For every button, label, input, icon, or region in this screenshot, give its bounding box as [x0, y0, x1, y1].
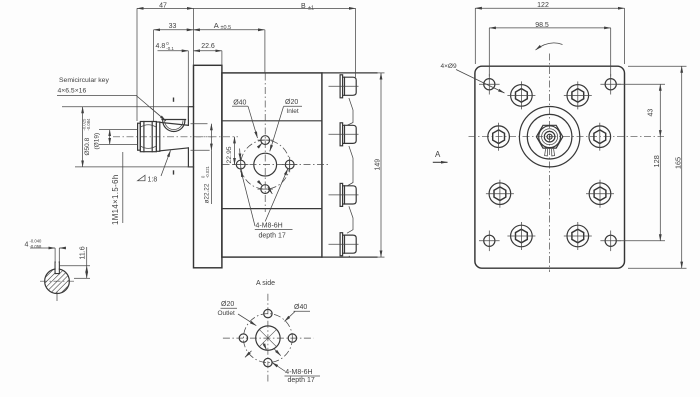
- svg-text:128: 128: [652, 155, 661, 167]
- svg-text:A side: A side: [256, 280, 275, 287]
- svg-text:1M14×1.5-6h: 1M14×1.5-6h: [111, 174, 120, 225]
- svg-text:±0.5: ±0.5: [221, 25, 232, 31]
- svg-text:4×6.5×16: 4×6.5×16: [58, 88, 87, 95]
- svg-text:149: 149: [375, 159, 382, 171]
- svg-text:depth 17: depth 17: [259, 233, 286, 240]
- svg-text:Ø40: Ø40: [233, 99, 246, 106]
- svg-text:22.95: 22.95: [226, 146, 233, 163]
- svg-text:43: 43: [648, 109, 655, 117]
- svg-text:4×Ø9: 4×Ø9: [441, 63, 457, 70]
- svg-text:Ø20: Ø20: [221, 301, 234, 308]
- svg-text:165: 165: [674, 157, 683, 169]
- svg-text:Ø20: Ø20: [285, 99, 298, 106]
- svg-text:depth 17: depth 17: [288, 377, 315, 384]
- svg-text:Outlet: Outlet: [218, 310, 236, 317]
- svg-text:-0.021: -0.021: [205, 165, 210, 178]
- svg-text:4-M8-6H: 4-M8-6H: [285, 369, 312, 376]
- svg-text:Semicircular key: Semicircular key: [59, 77, 109, 84]
- svg-text:-0.040: -0.040: [30, 239, 43, 244]
- svg-text:33: 33: [169, 23, 177, 30]
- svg-text:11.6: 11.6: [80, 246, 87, 259]
- svg-text:-0.1: -0.1: [166, 46, 174, 51]
- svg-text:4.8: 4.8: [156, 43, 166, 50]
- svg-text:47: 47: [159, 2, 167, 9]
- svg-text:Ø50.8: Ø50.8: [84, 137, 91, 155]
- svg-text:4: 4: [25, 242, 29, 249]
- svg-text:(Ø19): (Ø19): [94, 133, 101, 150]
- svg-text:A: A: [214, 21, 219, 30]
- svg-text:98.5: 98.5: [535, 22, 549, 29]
- svg-text:122: 122: [537, 2, 549, 9]
- svg-text:22.6: 22.6: [201, 43, 215, 50]
- svg-text:-0.084: -0.084: [86, 118, 91, 131]
- svg-text:Ø40: Ø40: [294, 304, 307, 311]
- svg-text:B: B: [301, 3, 306, 10]
- svg-text:A: A: [435, 150, 441, 159]
- svg-text:4-M8-6H: 4-M8-6H: [256, 223, 283, 230]
- svg-text:Inlet: Inlet: [286, 108, 298, 115]
- svg-text:ø22.22: ø22.22: [203, 183, 210, 203]
- svg-text:1:8: 1:8: [148, 177, 158, 184]
- svg-text:±1: ±1: [308, 5, 314, 11]
